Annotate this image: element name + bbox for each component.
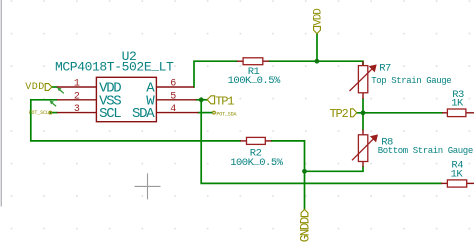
svg-text:TP1: TP1 [215,95,234,109]
svg-text:Top Strain Gauge: Top Strain Gauge [371,76,451,86]
svg-text:VDD: VDD [25,82,45,93]
svg-text:GNDD: GNDD [299,217,313,242]
svg-text:TP2: TP2 [330,107,349,121]
svg-text:SDA: SDA [132,106,155,122]
svg-text:VDD: VDD [312,8,324,26]
svg-text:4: 4 [170,104,176,115]
svg-text:6: 6 [170,79,176,90]
svg-text:100K_0.5%: 100K_0.5% [230,156,283,169]
svg-text:1K: 1K [451,98,464,110]
svg-text:Bottom Strain Gauge: Bottom Strain Gauge [378,146,473,156]
svg-text:POT_SDA: POT_SDA [216,111,236,117]
svg-text:2: 2 [74,91,80,102]
svg-text:1: 1 [74,79,80,90]
svg-text:3: 3 [74,104,80,115]
svg-text:100K_0.5%: 100K_0.5% [228,74,281,87]
svg-text:MCP4018T-502E_LT: MCP4018T-502E_LT [55,58,174,74]
svg-text:POT_SCL: POT_SCL [29,110,49,116]
svg-text:5: 5 [170,91,176,102]
svg-text:SCL: SCL [99,106,121,122]
svg-text:1K: 1K [451,168,464,180]
svg-text:R7: R7 [379,63,391,75]
